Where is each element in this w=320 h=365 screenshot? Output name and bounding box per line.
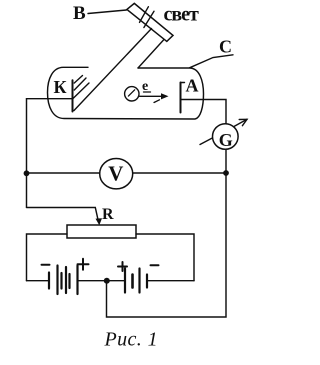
label B lead line bbox=[88, 10, 127, 14]
battery2 short bar 2 bbox=[146, 275, 148, 288]
quartz window B bbox=[127, 3, 173, 41]
junction dot battery bbox=[104, 278, 110, 284]
battery1 short bar 1 bbox=[48, 273, 50, 289]
wire voltmeter row bbox=[27, 172, 227, 174]
cathode K plate bbox=[72, 80, 74, 111]
wire rheostat left lead bbox=[27, 234, 68, 281]
voltmeter V circle bbox=[100, 159, 133, 189]
wire between batteries bbox=[78, 280, 125, 282]
wire rheostat right lead bbox=[136, 234, 194, 281]
battery1 plus sign bbox=[78, 263, 89, 265]
light ray / tube wall 1 bbox=[74, 29, 152, 111]
cathode hatch stroke 1 bbox=[74, 76, 82, 84]
cathode hatch stroke 2 bbox=[74, 78, 86, 90]
electron circle bbox=[125, 87, 139, 101]
svg-text:е: е bbox=[142, 79, 148, 94]
anode A plate bbox=[180, 83, 182, 113]
wire wiper lead bbox=[27, 208, 99, 222]
battery2 plus sign bbox=[118, 266, 127, 268]
electron underline bbox=[144, 91, 151, 93]
window hatch slash 2 bbox=[144, 11, 154, 27]
svg-text:G: G bbox=[219, 130, 233, 150]
anode plate top serif bbox=[181, 82, 185, 84]
electron minus slash bbox=[128, 90, 134, 96]
rheostat R box bbox=[67, 225, 136, 238]
window hatch slash 1 bbox=[140, 7, 149, 23]
label C lead line bbox=[190, 55, 234, 68]
battery1 tall bar 2 bbox=[65, 267, 67, 293]
photocell bulb C outline bbox=[48, 67, 204, 119]
wire galvanometer to junction bbox=[225, 149, 227, 173]
battery1 short bar 3 bbox=[68, 274, 70, 288]
battery2 minus sign bbox=[151, 264, 159, 266]
battery1 short bar 2 bbox=[60, 273, 62, 289]
electron velocity arrow bbox=[140, 95, 165, 97]
tube wall 2 bbox=[138, 40, 164, 68]
wire battery row right bbox=[147, 280, 194, 282]
junction dot right bbox=[223, 170, 229, 176]
galvanometer G circle bbox=[213, 124, 239, 150]
battery2 tall bar 2 bbox=[138, 269, 140, 293]
svg-text:С: С bbox=[219, 36, 232, 56]
wire K lead bbox=[27, 98, 73, 100]
rheostat wiper arrow head bbox=[96, 218, 103, 225]
svg-text:свет: свет bbox=[164, 3, 200, 25]
svg-text:V: V bbox=[108, 162, 123, 186]
wire left rail bbox=[26, 99, 28, 208]
cathode hatch stroke 3 bbox=[73, 83, 89, 99]
galvanometer arrow head bbox=[239, 119, 247, 125]
battery1 minus sign bbox=[42, 264, 50, 266]
galvanometer arrow upper segment bbox=[234, 119, 248, 126]
svg-text:В: В bbox=[73, 3, 86, 24]
svg-text:А: А bbox=[186, 76, 199, 96]
wire anode lead bbox=[181, 100, 226, 125]
battery1 tall bar 3 bbox=[76, 266, 78, 295]
wire right rail bottom loop bbox=[107, 173, 227, 317]
galvanometer arrow lower segment bbox=[200, 138, 212, 145]
junction dot left bbox=[24, 170, 30, 176]
battery1 tall bar 1 bbox=[56, 266, 58, 295]
svg-text:Рис. 1: Рис. 1 bbox=[104, 329, 159, 351]
battery2 short bar 1 bbox=[131, 275, 134, 288]
svg-text:К: К bbox=[54, 77, 67, 97]
battery2 tall bar 1 bbox=[124, 269, 126, 293]
wire battery row left bbox=[27, 280, 49, 282]
svg-text:R: R bbox=[102, 206, 114, 223]
